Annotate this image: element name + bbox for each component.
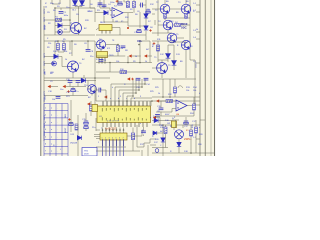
wire: [101, 89, 106, 91]
wire drv 5: [116, 128, 118, 134]
diode D4: [58, 30, 63, 35]
wire: [60, 8, 62, 10]
wire: [164, 18, 166, 20]
bus stub X1-1: [196, 4, 200, 6]
wire: [170, 8, 181, 10]
op-amp IC1B: [176, 100, 187, 111]
wire: [145, 0, 147, 14]
wire pin drop d: [134, 101, 136, 106]
wire stub c: [96, 138, 100, 140]
wire: [195, 134, 197, 154]
junction: [94, 77, 96, 79]
svg-text:1k: 1k: [65, 59, 67, 61]
table entries: [45, 108, 67, 153]
capacitor C26: [141, 131, 146, 133]
wire: [110, 10, 112, 12]
wire: [119, 28, 121, 36]
wire: [177, 37, 184, 39]
wire: [143, 134, 145, 136]
fuse F1: [172, 121, 177, 128]
wire: [165, 134, 167, 148]
wire: [143, 143, 145, 147]
resistor R3: [164, 14, 167, 18]
wire: [160, 112, 162, 117]
wire: [125, 1, 128, 3]
junction: [57, 40, 59, 42]
junction red: [127, 27, 129, 29]
op-amp IC1A: [112, 8, 123, 19]
net text col D: [44, 115, 46, 136]
svg-text:2 3 4 5 6 7 8 9: 2 3 4 5 6 7 8 9: [107, 120, 119, 122]
wire pin drop c: [130, 98, 132, 106]
resistor R3b: [185, 14, 188, 18]
svg-text:OUT1: OUT1: [44, 9, 46, 14]
wire: [139, 56, 141, 63]
svg-text:x: x: [199, 127, 200, 129]
svg-text:OUT1: OUT1: [44, 25, 46, 30]
junction: [162, 96, 164, 98]
schematic sheet area: [41, 0, 215, 156]
wire: [69, 83, 71, 87]
svg-text:10k: 10k: [186, 90, 189, 92]
wire: [59, 0, 61, 4]
relay REL1 coil: [99, 25, 112, 34]
net flag 5: [87, 102, 90, 105]
resistor R16: [90, 105, 93, 111]
wire: [152, 32, 168, 34]
wire: [72, 72, 74, 78]
junction: [54, 7, 56, 9]
wire: [83, 75, 85, 78]
wire: [174, 94, 176, 98]
wire: [96, 71, 150, 73]
svg-text:DIGIT: DIGIT: [65, 127, 67, 133]
wire: [106, 44, 118, 46]
wire: [103, 16, 105, 22]
wire hop: [178, 86, 182, 88]
junction step 4: [135, 92, 137, 94]
junction: [151, 100, 153, 102]
svg-text:OUT1: OUT1: [44, 131, 46, 136]
junction drv 2: [105, 129, 107, 131]
wire drv 7: [123, 128, 125, 134]
trimmer P1: [92, 105, 98, 112]
resistor R2: [127, 2, 130, 8]
junction: [117, 44, 119, 46]
resistor R11: [157, 45, 160, 51]
wire: [157, 0, 159, 36]
wire: [117, 52, 119, 57]
diode D14: [81, 78, 85, 82]
wire drv out 3: [109, 139, 111, 156]
junction drv 7: [123, 129, 125, 131]
resistor R1: [56, 19, 62, 22]
wire: [136, 125, 138, 147]
resistor R5: [57, 44, 60, 51]
junction: [109, 62, 111, 64]
wire drv out 5: [116, 139, 118, 156]
wire: [157, 52, 159, 62]
wire drv out 4: [112, 139, 114, 156]
LED D11: [52, 61, 57, 66]
diode D2: [80, 1, 85, 6]
transistor T2: [160, 4, 170, 14]
wire step drop 2: [114, 87, 116, 106]
junction step 2: [141, 86, 143, 88]
wire: [96, 28, 99, 31]
wire: [75, 6, 82, 8]
wire: [172, 119, 179, 121]
wire: [74, 0, 76, 7]
wire: [161, 60, 163, 63]
wire: [118, 55, 125, 57]
net text col C: [44, 91, 46, 102]
wire step run 2: [115, 86, 142, 88]
wire: [158, 100, 166, 102]
svg-text:LED: LED: [50, 72, 54, 74]
wire: [62, 25, 70, 27]
wire pin drop g: [146, 101, 148, 106]
net flag 3: [48, 85, 51, 88]
wire: [117, 0, 119, 4]
net flag 6: [153, 116, 156, 119]
net flag 8: [104, 95, 107, 98]
svg-text:2k: 2k: [45, 7, 47, 9]
resistor R20: [195, 127, 198, 133]
svg-text:OUT1: OUT1: [44, 53, 46, 58]
wire: [57, 41, 59, 44]
diode D7: [144, 14, 148, 18]
net flag 9: [156, 99, 159, 102]
wire: [72, 92, 74, 96]
diode D10: [54, 54, 58, 58]
wire: [44, 77, 110, 79]
wire: [133, 0, 135, 2]
wire: [185, 53, 187, 78]
lamp LA1: [175, 130, 184, 139]
wire drv out 1: [102, 139, 104, 156]
wire: [178, 147, 180, 153]
wire: [57, 50, 59, 52]
svg-text:OUT1: OUT1: [44, 17, 46, 22]
transistor T6: [68, 61, 79, 72]
resistor R12: [174, 87, 177, 93]
wire: [69, 41, 71, 50]
wire: [96, 89, 99, 91]
wire: [127, 0, 129, 2]
wire: [87, 88, 89, 90]
capacitor C16: [84, 121, 88, 124]
wire: [96, 62, 152, 64]
svg-text:22u: 22u: [92, 127, 95, 129]
wire: [149, 41, 151, 63]
wire: [62, 66, 68, 68]
wire: [141, 130, 143, 136]
capacitor C12: [71, 89, 75, 92]
wire: [185, 17, 187, 19]
regulator IC2: [97, 52, 108, 64]
wire step run 4: [123, 92, 136, 94]
wire: [193, 111, 195, 117]
bus stub X1-4: [196, 38, 200, 40]
resistor R4: [175, 24, 181, 27]
inner frame line: [210, 0, 212, 156]
bus line net-1: [199, 0, 201, 156]
diode D6: [104, 11, 108, 15]
wire: [173, 128, 175, 131]
wire step drop 5: [126, 96, 128, 106]
junction: [127, 62, 129, 64]
wire: [152, 40, 170, 42]
junction drv 6: [119, 129, 121, 131]
wire pin drop h: [150, 101, 152, 106]
wire: [95, 44, 96, 46]
wire: [167, 45, 169, 50]
wire: [58, 56, 62, 58]
wire: [78, 7, 80, 19]
bus line net-2: [204, 0, 206, 156]
capacitor C1: [59, 12, 64, 14]
svg-text:230V: 230V: [84, 154, 89, 156]
capacitor C24: [84, 126, 88, 129]
wire: [58, 51, 64, 53]
wire: [70, 7, 95, 9]
net flag 1: [129, 54, 132, 57]
transistor T4: [163, 20, 173, 30]
junction step 5: [132, 95, 134, 97]
wire: [141, 150, 143, 156]
wire: [104, 21, 128, 23]
wire pin drop b: [106, 101, 108, 106]
diode D8: [144, 26, 148, 30]
wire: [89, 0, 91, 8]
wire: [178, 139, 180, 143]
capacitor C13: [136, 78, 141, 80]
capacitor C10: [68, 81, 73, 83]
junction: [126, 100, 128, 102]
capacitor C4: [118, 2, 122, 5]
schematic page background: [0, 0, 252, 156]
junction: [138, 44, 140, 46]
capacitor C18: [56, 97, 61, 99]
wire: [157, 41, 159, 52]
polarity C12: [67, 90, 70, 93]
wire: [91, 93, 93, 95]
wire: [44, 80, 96, 82]
svg-text:OUT1: OUT1: [44, 123, 46, 128]
wire drv 4: [112, 128, 114, 134]
wire: [94, 8, 96, 22]
svg-text:LM: LM: [176, 114, 179, 116]
wire: [100, 49, 102, 51]
wire: [112, 27, 120, 29]
net text col A: [44, 9, 46, 30]
svg-text:22n: 22n: [90, 56, 93, 58]
transistor array strip: [100, 133, 127, 146]
wire: [139, 4, 141, 6]
resistor R23: [166, 100, 173, 103]
wire: [110, 14, 112, 16]
wire: [62, 31, 70, 33]
svg-text:1k: 1k: [145, 61, 147, 63]
transistor T10: [88, 85, 97, 94]
wire: [109, 63, 111, 73]
svg-text:SEG: SEG: [65, 113, 67, 118]
wire: [162, 79, 164, 97]
wire: [128, 25, 146, 27]
wire: [109, 8, 111, 11]
wire: [100, 7, 110, 9]
svg-text:10k: 10k: [52, 99, 55, 101]
capacitor C3: [102, 5, 107, 7]
wire: [190, 125, 192, 130]
wire: [165, 125, 167, 127]
wire: [185, 50, 187, 53]
wire: [158, 59, 168, 61]
wire: [167, 50, 169, 54]
wire: [149, 101, 151, 106]
junction drv 4: [112, 129, 114, 131]
wire: [65, 86, 86, 88]
resistor R18: [164, 127, 167, 134]
junction: [162, 124, 164, 126]
capacitor C23: [121, 46, 126, 48]
wire: [152, 152, 214, 154]
wire: [69, 0, 71, 20]
wire: [95, 118, 97, 131]
wire: [96, 55, 118, 57]
wire: [95, 12, 104, 14]
wire step run 5: [127, 95, 133, 97]
wire: [133, 8, 135, 13]
capacitor C9: [99, 60, 104, 62]
wire: [170, 41, 186, 43]
wire: [140, 40, 150, 42]
wire drv out 7: [123, 139, 125, 156]
wire: [81, 0, 83, 7]
wire drv 3: [109, 128, 111, 134]
capacitor C27: [155, 115, 160, 117]
wire: [145, 31, 147, 40]
svg-text:OUT1: OUT1: [44, 97, 46, 102]
wire: [158, 120, 172, 122]
frame border left: [40, 0, 42, 156]
svg-text:k: k: [199, 93, 200, 95]
wire: [174, 79, 176, 87]
wire step run 1: [111, 83, 145, 85]
wire: [77, 115, 79, 136]
junction step 3: [138, 89, 140, 91]
diode D17: [161, 138, 165, 142]
wire drv 2: [105, 128, 107, 134]
wire: [55, 7, 70, 9]
wire drv out 6: [119, 139, 121, 156]
wire: [51, 0, 53, 4]
wire left rail: [43, 6, 45, 141]
wire: [150, 144, 156, 146]
bus stub X1-3: [196, 31, 200, 33]
polarity mark 2: [153, 42, 156, 45]
wire: [152, 13, 155, 15]
wire: [44, 63, 52, 65]
wire: [152, 147, 168, 149]
resistor R10: [120, 71, 127, 74]
junction drv 3: [109, 129, 111, 131]
wire: [52, 3, 60, 5]
resistor R17: [131, 133, 134, 140]
wire step rise 2: [141, 79, 143, 87]
wire: [117, 45, 119, 46]
wire: [90, 7, 95, 9]
wire: [54, 8, 56, 35]
svg-text:c: c: [126, 98, 127, 100]
wire: [189, 43, 191, 45]
svg-text:UOUT: UOUT: [196, 62, 198, 68]
wire: [190, 59, 195, 61]
wire: [185, 0, 187, 4]
wire: [200, 119, 205, 121]
svg-text:OUT1: OUT1: [44, 91, 46, 96]
svg-text:OUT1: OUT1: [44, 69, 46, 74]
resistor R2b: [133, 2, 136, 8]
wire: [156, 117, 160, 119]
wire: [171, 32, 173, 34]
junction drv 5: [116, 129, 118, 131]
capacitor C19: [159, 108, 164, 110]
polarity mark 3: [68, 118, 71, 121]
junction: [118, 100, 120, 102]
junction drv 1: [102, 129, 104, 131]
wire: [63, 41, 65, 44]
wire: [167, 58, 169, 62]
svg-text:22k: 22k: [48, 43, 51, 45]
wire: [90, 101, 92, 105]
junction: [190, 152, 192, 154]
wire: [161, 73, 163, 78]
wire: [123, 0, 125, 2]
wire: [137, 146, 144, 148]
strip pin text: [102, 137, 124, 139]
wire pin drop e: [138, 101, 140, 106]
transformer TR1 outline: [82, 148, 97, 157]
wire step rise 3: [138, 79, 140, 90]
resistor R6: [63, 44, 66, 51]
capacitor C21: [99, 88, 101, 93]
svg-text:1k: 1k: [135, 56, 137, 58]
junction: [87, 40, 89, 42]
diode D13: [172, 61, 177, 66]
wire: [150, 138, 156, 140]
polarity mark 4: [131, 78, 134, 81]
wire: [90, 112, 92, 117]
wire: [144, 142, 150, 144]
svg-text:10u: 10u: [66, 7, 69, 9]
transistor T7: [96, 40, 105, 49]
wire: [147, 55, 152, 57]
wire drv 6: [119, 128, 121, 134]
wire step drop 3: [118, 90, 120, 106]
bus stub X1-6: [196, 104, 200, 106]
capacitor C8: [86, 50, 91, 52]
wire step drop 4: [122, 93, 124, 106]
wire: [158, 24, 163, 26]
diode D15: [77, 136, 81, 140]
svg-text:1k: 1k: [158, 93, 160, 95]
svg-text:1N4148: 1N4148: [70, 143, 78, 145]
wire: [61, 57, 63, 67]
transistor T3: [181, 4, 191, 14]
resistor R27: [75, 124, 78, 130]
